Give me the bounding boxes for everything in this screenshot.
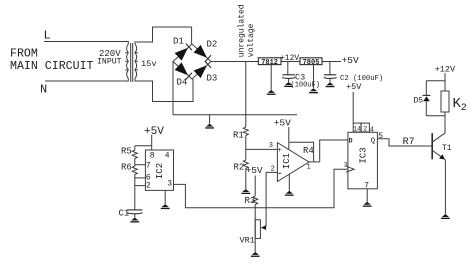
resistor R2 bbox=[234, 160, 249, 173]
svg-text:D3: D3 bbox=[207, 74, 218, 84]
svg-text:R2: R2 bbox=[234, 163, 245, 173]
wire secondary bottom to bridge bbox=[135, 79, 193, 102]
bridge rectifier diamond bbox=[173, 44, 211, 79]
svg-text:3: 3 bbox=[269, 142, 273, 150]
svg-text:4: 4 bbox=[370, 126, 374, 134]
svg-text:8: 8 bbox=[150, 152, 155, 161]
svg-text:IC1: IC1 bbox=[282, 153, 292, 169]
resistor R3 bbox=[245, 196, 258, 206]
wire 7805 to +5V bbox=[322, 61, 341, 63]
ground bridge negative bbox=[205, 115, 214, 129]
svg-text:R6: R6 bbox=[121, 163, 132, 173]
transistor T1 bbox=[432, 133, 452, 160]
regulator 7812 bbox=[258, 58, 281, 67]
transformer secondary winding bbox=[135, 44, 138, 79]
wire unregulated rail bbox=[211, 61, 258, 63]
capacitor C2 bbox=[324, 75, 384, 83]
svg-text:+5V: +5V bbox=[246, 165, 263, 176]
svg-text:7812: 7812 bbox=[261, 59, 278, 67]
wire D5 branch bbox=[425, 81, 427, 116]
svg-text:3: 3 bbox=[167, 180, 172, 189]
wire +5V to IC3 pins bbox=[352, 92, 354, 123]
label FROM MAIN CIRCUIT bbox=[10, 48, 94, 74]
svg-text:(100uF): (100uF) bbox=[291, 81, 320, 89]
diode D1 bbox=[173, 37, 192, 61]
wire N line bbox=[45, 79, 128, 82]
ground C3 bbox=[284, 79, 293, 87]
ground T1 bbox=[441, 214, 450, 219]
wire IC1 pin2 to VR1 wiper bbox=[266, 172, 277, 226]
svg-text:IC3: IC3 bbox=[358, 147, 368, 163]
wire R6 junction to pin6 bbox=[135, 177, 146, 179]
svg-text:4: 4 bbox=[165, 152, 170, 161]
VR1 wiper arrow bbox=[261, 225, 266, 230]
svg-text:7805: 7805 bbox=[303, 59, 320, 67]
svg-text:Q: Q bbox=[371, 137, 376, 145]
op-amp IC1 bbox=[277, 143, 309, 182]
wire top tee to R5 bbox=[135, 145, 152, 147]
transformer primary winding bbox=[125, 44, 128, 79]
svg-text:14: 14 bbox=[353, 126, 361, 133]
wire R1 to R2 bbox=[245, 136, 247, 161]
wire +5V down to R3 bbox=[254, 176, 256, 197]
IC3 flip-flop body bbox=[348, 132, 378, 189]
svg-text:1: 1 bbox=[307, 164, 311, 172]
wire junction to pin2 bbox=[135, 178, 146, 186]
svg-text:T1: T1 bbox=[442, 144, 452, 153]
svg-text:3: 3 bbox=[344, 162, 348, 169]
diode D5 bbox=[414, 95, 431, 105]
capacitor C1 bbox=[119, 208, 143, 218]
potentiometer VR1 bbox=[240, 220, 261, 246]
resistor R6 bbox=[121, 163, 137, 178]
svg-text:unregulated: unregulated bbox=[237, 4, 246, 57]
wire K2 to collector bbox=[444, 112, 446, 133]
svg-text:+5V: +5V bbox=[342, 55, 359, 66]
IC3 pin D bbox=[349, 137, 353, 144]
svg-text:R7: R7 bbox=[403, 137, 415, 148]
svg-text:IC2: IC2 bbox=[155, 163, 165, 179]
svg-text:D2: D2 bbox=[207, 39, 218, 49]
resistor R1 bbox=[233, 127, 248, 141]
wire +5V to IC2 pin8 bbox=[151, 135, 153, 150]
svg-text:VR1: VR1 bbox=[240, 236, 255, 246]
label 220V INPUT bbox=[97, 49, 122, 67]
svg-text:+5V: +5V bbox=[274, 117, 291, 128]
wire emitter down bbox=[444, 160, 446, 214]
svg-text:7: 7 bbox=[146, 161, 151, 170]
diode D3 bbox=[194, 61, 218, 84]
svg-text:+12V: +12V bbox=[435, 64, 456, 74]
wire 7812 to 7805 bbox=[281, 61, 300, 63]
wire L line bbox=[44, 42, 128, 45]
svg-text:2: 2 bbox=[146, 181, 151, 190]
ground 7812 bbox=[267, 65, 276, 95]
wire IC3 Q pin5 to R7 bbox=[377, 139, 432, 146]
wire relay bottom node bbox=[426, 115, 445, 117]
wire IC2 pin3 to IC3 clock bus bbox=[174, 169, 348, 208]
svg-text:15v: 15v bbox=[141, 59, 156, 69]
svg-text:+5V: +5V bbox=[346, 82, 362, 92]
wire relay top node bbox=[426, 80, 445, 82]
svg-text:FROM: FROM bbox=[10, 48, 38, 61]
ground 7805 bbox=[309, 65, 318, 94]
ground IC1 bbox=[285, 174, 294, 196]
wire +12V down bbox=[444, 73, 446, 91]
capacitor C3 bbox=[282, 72, 320, 89]
svg-text:R1: R1 bbox=[233, 131, 244, 141]
wire IC1 output bbox=[309, 161, 320, 163]
ground VR1 bbox=[251, 252, 260, 257]
diode D2 bbox=[194, 39, 218, 62]
svg-text:+5V: +5V bbox=[144, 126, 164, 138]
diode D4 bbox=[175, 62, 192, 87]
wire drop to C2 bbox=[329, 62, 331, 75]
svg-text:INPUT: INPUT bbox=[97, 58, 122, 67]
wire junction to IC1 pin3 bbox=[246, 148, 278, 150]
resistor R4 pullup bbox=[289, 142, 314, 162]
svg-text:C1: C1 bbox=[119, 208, 130, 218]
transformer core bbox=[131, 43, 133, 82]
wire +5V to IC1 bbox=[288, 127, 290, 150]
IC3 clock pin 3 bbox=[344, 162, 355, 173]
wire drop to C3 bbox=[287, 62, 289, 75]
svg-text:D4: D4 bbox=[177, 78, 188, 88]
wire IC1 output to IC3 D bbox=[320, 140, 348, 162]
wire R3 to VR1 to ground bbox=[254, 205, 256, 252]
wire bridge negative down and across bbox=[173, 62, 297, 115]
wire unregulated drop to R1 bbox=[245, 62, 247, 128]
svg-text:N: N bbox=[40, 83, 47, 97]
svg-text:D5: D5 bbox=[414, 96, 424, 105]
wire R5 junction to pin7 bbox=[135, 164, 146, 166]
resistor R5 bbox=[121, 146, 137, 165]
svg-text:5: 5 bbox=[378, 132, 383, 141]
IC3 pin 14 box bbox=[353, 123, 361, 132]
net unregulated voltage bbox=[237, 4, 256, 57]
svg-text:D1: D1 bbox=[173, 37, 184, 47]
svg-text:2: 2 bbox=[461, 103, 467, 114]
svg-text:R4: R4 bbox=[303, 146, 314, 156]
ground IC2 bbox=[161, 190, 170, 209]
svg-text:+: + bbox=[278, 147, 282, 155]
ground R2 bbox=[241, 189, 250, 194]
wire R2 to ground bbox=[245, 169, 247, 190]
regulator 7805 bbox=[300, 58, 322, 67]
ground C2 bbox=[326, 79, 335, 88]
IC3 pin 2 box bbox=[361, 123, 369, 132]
ground C1 bbox=[130, 214, 139, 223]
svg-text:R3: R3 bbox=[245, 196, 256, 206]
svg-text:L: L bbox=[44, 29, 51, 43]
svg-text:2: 2 bbox=[363, 126, 367, 133]
svg-text:D: D bbox=[349, 137, 353, 144]
svg-text:R5: R5 bbox=[121, 147, 132, 157]
svg-text:voltage: voltage bbox=[247, 23, 256, 57]
IC2 555 timer body bbox=[145, 150, 173, 190]
wire secondary top to bridge bbox=[135, 27, 192, 44]
ground IC3 bbox=[363, 189, 372, 207]
wire down to C1 bbox=[134, 186, 136, 210]
relay coil K2 bbox=[441, 91, 467, 114]
svg-text:MAIN CIRCUIT: MAIN CIRCUIT bbox=[10, 60, 94, 73]
